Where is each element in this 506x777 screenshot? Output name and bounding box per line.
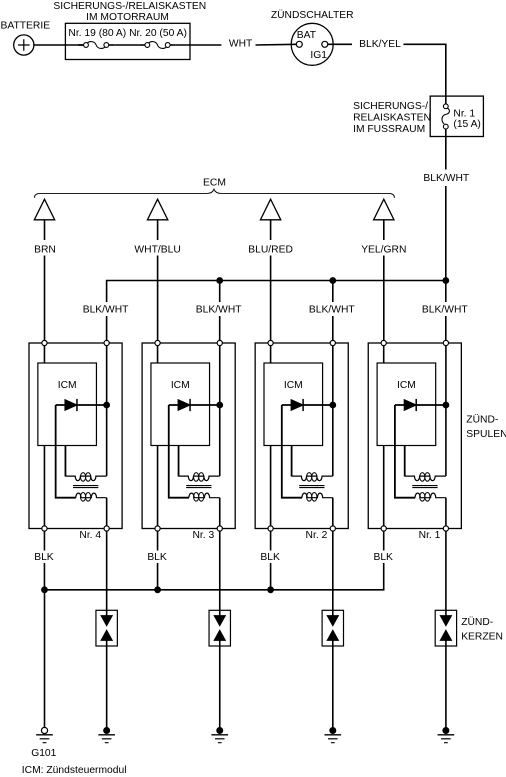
ICM module U2 xyxy=(151,363,210,446)
coil 1 BLK wire upper xyxy=(43,531,45,551)
ground G101 xyxy=(31,727,56,759)
svg-text:Nr. 1: Nr. 1 xyxy=(453,108,475,119)
coil 4 ICM ground wire xyxy=(383,446,385,527)
svg-text:BLK/WHT: BLK/WHT xyxy=(83,305,129,316)
wire spark plug 2 to ground xyxy=(219,640,221,729)
ECM connector triangle 4 xyxy=(374,199,394,240)
ground bus wire xyxy=(45,589,271,591)
wire BLK/WHT to coil 3 xyxy=(332,281,334,343)
wire spark plug 3 to ground xyxy=(332,640,334,729)
wire BLU/RED down to coil 3 xyxy=(270,256,272,343)
svg-text:ZÜND-: ZÜND- xyxy=(461,616,493,628)
bus junction dot 4 xyxy=(443,278,449,284)
ignition coil Nr. 2 outer box xyxy=(255,343,348,529)
coil 2 primary feed wire xyxy=(178,446,180,477)
coil 3 terminal bottom-left xyxy=(268,526,273,531)
spark plug 1 xyxy=(96,610,117,646)
coil 3 ICM ground wire xyxy=(270,446,272,527)
fuse/relay box footwell (SICHERUNGS-/RELAISKASTEN IM FUSSRAUM) xyxy=(353,96,483,136)
svg-text:BLK/YEL: BLK/YEL xyxy=(359,39,401,50)
ignition coil Nr. 4 outer box xyxy=(29,343,122,529)
wire YEL/GRN down to coil 4 xyxy=(383,256,385,343)
ignition coil Nr. 1 outer box xyxy=(368,343,461,529)
coil 1 primary winding xyxy=(65,473,106,482)
coil 2 primary winding xyxy=(179,473,220,482)
coil 4 terminal bottom-right xyxy=(443,526,448,531)
ECM connector triangle 2 xyxy=(147,199,167,240)
wire BLK/YEL to corner and down xyxy=(403,44,445,104)
ignition switch ZUENDSCHALTER xyxy=(271,9,354,65)
svg-text:ICM: ICM xyxy=(397,380,416,391)
svg-text:RELAISKASTEN: RELAISKASTEN xyxy=(353,112,431,123)
svg-text:SICHERUNGS-/RELAISKASTEN: SICHERUNGS-/RELAISKASTEN xyxy=(53,1,206,12)
svg-text:IM MOTORRAUM: IM MOTORRAUM xyxy=(86,12,169,23)
coil 4 BLK wire upper xyxy=(383,531,385,551)
ignition coil Nr. 3 outer box xyxy=(142,343,235,529)
svg-text:Nr. 19 (80 A): Nr. 19 (80 A) xyxy=(68,28,126,39)
ECM brace xyxy=(34,189,394,198)
coil 1 secondary winding xyxy=(76,493,107,502)
svg-text:IG1: IG1 xyxy=(310,50,327,61)
ground spark plug 2 xyxy=(211,728,228,743)
wire spark plug 4 to ground xyxy=(445,640,447,729)
battery BATTERIE xyxy=(1,21,51,55)
coil 1 terminal top-left xyxy=(42,340,47,345)
coil 4 secondary feed wire xyxy=(395,405,415,498)
wire BLK/WHT to coil 4 xyxy=(445,281,447,343)
coil 4 diode junction dot xyxy=(443,402,449,408)
coil 4 BLK wire to bus xyxy=(271,563,384,590)
svg-text:IM FUSSRAUM: IM FUSSRAUM xyxy=(353,124,425,135)
wire bus to G101 xyxy=(44,590,46,728)
ground spark plug 4 xyxy=(438,728,455,743)
wire coil 4 to spark plug xyxy=(445,531,447,616)
wire BLK/WHT down to bus xyxy=(445,186,447,281)
coil 2 secondary winding xyxy=(189,493,220,502)
svg-text:BAT: BAT xyxy=(297,30,317,41)
wire switch to BLK/YEL label xyxy=(328,43,352,45)
svg-text:BLU/RED: BLU/RED xyxy=(248,245,293,256)
svg-text:BLK/WHT: BLK/WHT xyxy=(422,305,468,316)
coil 3 terminal bottom-right xyxy=(330,526,335,531)
coil 2 core xyxy=(186,486,211,488)
bus junction dot 3 xyxy=(330,278,336,284)
coil 3 BLK/WHT internal wire xyxy=(332,346,334,476)
coil 1 BLK/WHT internal wire xyxy=(106,346,108,476)
svg-text:ICM: ICM xyxy=(58,380,77,391)
coil 2 BLK wire lower xyxy=(157,563,159,590)
wire coil 1 to spark plug xyxy=(106,531,108,616)
coil 2 terminal top-left xyxy=(155,340,160,345)
svg-text:ECM: ECM xyxy=(203,178,226,189)
svg-text:BRN: BRN xyxy=(34,245,56,256)
svg-text:(15 A): (15 A) xyxy=(453,119,480,130)
coil 1 secondary feed wire xyxy=(56,405,76,498)
coil 1 ICM ground wire xyxy=(43,446,45,527)
coil 4 primary feed wire xyxy=(404,446,406,477)
wire fuse Nr.1 to BLK/WHT label xyxy=(445,129,447,170)
coil 2 signal wire into ICM xyxy=(157,346,159,363)
coil 2 BLK wire upper xyxy=(157,531,159,551)
ICM module U4 xyxy=(377,363,436,446)
coil 4 BLK/WHT internal wire xyxy=(445,346,447,476)
ICM module U3 xyxy=(264,363,323,446)
svg-text:WHT/BLU: WHT/BLU xyxy=(134,245,180,256)
coil 3 secondary feed wire xyxy=(282,405,302,498)
ground bus dot 2 xyxy=(155,587,161,593)
svg-text:BLK: BLK xyxy=(260,552,280,563)
wire BLK/WHT to coil 1 xyxy=(106,316,108,342)
ground spark plug 3 xyxy=(325,728,342,743)
coil 4 primary winding xyxy=(405,473,446,482)
wire BLK/WHT to coil 2 xyxy=(219,281,221,343)
coil 3 secondary winding xyxy=(302,493,333,502)
svg-text:KERZEN: KERZEN xyxy=(461,632,503,643)
svg-text:Nr. 2: Nr. 2 xyxy=(306,530,328,541)
svg-text:BLK/WHT: BLK/WHT xyxy=(309,305,355,316)
coil 2 secondary feed wire xyxy=(169,405,189,498)
coil 3 diode junction dot xyxy=(330,402,336,408)
spark plug 2 xyxy=(209,610,230,646)
coil 4 secondary output wire xyxy=(445,498,447,526)
coil 3 primary feed wire xyxy=(291,446,293,477)
ECM connector triangle 1 xyxy=(34,199,54,240)
coil 2 terminal top-right xyxy=(217,340,222,345)
BLK/WHT bus wire xyxy=(107,281,446,303)
wire WHT label to ignition switch xyxy=(256,43,297,46)
wire coil 3 to spark plug xyxy=(332,531,334,616)
switch contact BAT xyxy=(296,41,302,47)
svg-text:BLK/WHT: BLK/WHT xyxy=(423,173,469,184)
svg-text:ICM: ICM xyxy=(171,380,190,391)
svg-text:BLK: BLK xyxy=(147,552,167,563)
coil 2 terminal bottom-right xyxy=(217,526,222,531)
svg-text:BATTERIE: BATTERIE xyxy=(1,21,51,32)
coil 2 ICM ground wire xyxy=(157,446,159,527)
svg-text:SICHERUNGS-/: SICHERUNGS-/ xyxy=(353,101,428,112)
label ZUEND-KERZEN xyxy=(461,616,503,643)
coil 4 core xyxy=(412,486,437,488)
coil 3 primary winding xyxy=(292,473,333,482)
svg-text:Nr. 4: Nr. 4 xyxy=(79,530,101,541)
svg-text:ZÜNDSCHALTER: ZÜNDSCHALTER xyxy=(271,9,354,21)
wire coil 2 to spark plug xyxy=(219,531,221,616)
svg-text:ZÜND-: ZÜND- xyxy=(466,414,498,426)
coil 3 terminal top-right xyxy=(330,340,335,345)
label ZUEND-SPULEN xyxy=(466,414,506,441)
fuse Nr. 20 (50 A) xyxy=(139,42,175,49)
coil 1 terminal bottom-left xyxy=(42,526,47,531)
coil 3 core xyxy=(299,486,324,488)
coil 4 signal wire into ICM xyxy=(383,346,385,363)
coil 1 diode xyxy=(56,399,107,411)
svg-text:Nr. 3: Nr. 3 xyxy=(193,530,215,541)
fuse Nr. 19 (80 A) xyxy=(78,42,114,49)
coil 1 core xyxy=(73,486,98,488)
coil 1 secondary output wire xyxy=(106,498,108,526)
coil 2 BLK/WHT internal wire xyxy=(219,346,221,476)
coil 2 diode xyxy=(169,399,220,411)
svg-text:SPULEN: SPULEN xyxy=(466,429,506,440)
coil 4 terminal bottom-left xyxy=(381,526,386,531)
coil 1 terminal bottom-right xyxy=(104,526,109,531)
ground spark plug 1 xyxy=(98,728,115,743)
wire between fuses xyxy=(114,44,139,46)
coil 3 signal wire into ICM xyxy=(270,346,272,363)
coil 4 diode xyxy=(395,399,446,411)
coil 1 diode junction dot xyxy=(104,402,110,408)
coil 4 terminal top-left xyxy=(381,340,386,345)
fuse Nr. 1 (15 A) xyxy=(442,104,449,129)
coil 3 BLK wire upper xyxy=(270,531,272,551)
coil 4 secondary winding xyxy=(415,493,446,502)
wire BRN down to coil 1 xyxy=(44,256,46,343)
ICM module U1 xyxy=(38,363,97,446)
ECM connector triangle 3 xyxy=(260,199,280,240)
svg-text:Nr. 1: Nr. 1 xyxy=(419,530,441,541)
wire battery to engine fuse box xyxy=(34,44,84,46)
coil 2 secondary output wire xyxy=(219,498,221,526)
svg-text:ICM: Zündsteuermodul: ICM: Zündsteuermodul xyxy=(22,765,127,776)
bus junction dot 2 xyxy=(217,278,223,284)
coil 1 signal wire into ICM xyxy=(43,346,45,363)
switch contact IG1 xyxy=(322,41,328,47)
svg-text:G101: G101 xyxy=(31,748,56,759)
spark plug 4 xyxy=(435,610,456,646)
svg-text:WHT: WHT xyxy=(229,39,253,50)
svg-text:ICM: ICM xyxy=(284,380,303,391)
coil 2 diode junction dot xyxy=(217,402,223,408)
ground bus dot 3 xyxy=(268,587,274,593)
wire spark plug 1 to ground xyxy=(106,640,108,729)
coil 1 BLK wire lower xyxy=(43,563,45,590)
wire fuse box to WHT label xyxy=(176,44,222,46)
svg-text:BLK: BLK xyxy=(34,552,54,563)
coil 1 terminal top-right xyxy=(104,340,109,345)
spark plug 3 xyxy=(322,610,343,646)
coil 3 secondary output wire xyxy=(332,498,334,526)
coil 4 terminal top-right xyxy=(443,340,448,345)
svg-text:Nr. 20 (50 A): Nr. 20 (50 A) xyxy=(129,28,187,39)
fuse/relay box engine compartment (SICHERUNGS-/RELAISKASTEN IM MOTORRAUM) xyxy=(53,1,206,59)
coil 3 BLK wire lower xyxy=(270,563,272,590)
svg-text:YEL/GRN: YEL/GRN xyxy=(361,245,406,256)
coil 3 terminal top-left xyxy=(268,340,273,345)
svg-text:BLK/WHT: BLK/WHT xyxy=(196,305,242,316)
coil 3 diode xyxy=(282,399,333,411)
coil 1 primary feed wire xyxy=(64,446,66,477)
wire WHT/BLU down to coil 2 xyxy=(157,256,159,343)
coil 2 terminal bottom-left xyxy=(155,526,160,531)
svg-text:BLK: BLK xyxy=(373,552,393,563)
ground bus dot 1 xyxy=(42,587,48,593)
